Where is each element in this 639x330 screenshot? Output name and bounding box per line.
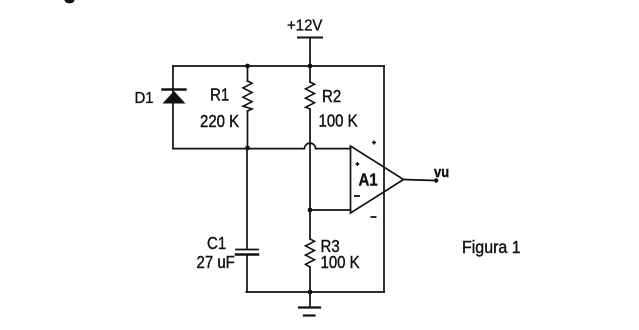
svg-text:R1: R1 <box>210 86 229 105</box>
svg-text:D1: D1 <box>135 89 154 106</box>
svg-text:R2: R2 <box>322 86 341 107</box>
svg-text:A1: A1 <box>359 170 378 189</box>
svg-text:27 uF: 27 uF <box>197 253 235 272</box>
svg-text:+12V: +12V <box>287 17 323 34</box>
svg-text:220 K: 220 K <box>200 111 239 132</box>
svg-text:C1: C1 <box>207 234 226 253</box>
svg-text:100 K: 100 K <box>319 112 358 131</box>
svg-text:vu: vu <box>434 163 449 180</box>
svg-text:Figura 1: Figura 1 <box>462 237 521 257</box>
svg-text:100 K: 100 K <box>321 253 360 272</box>
